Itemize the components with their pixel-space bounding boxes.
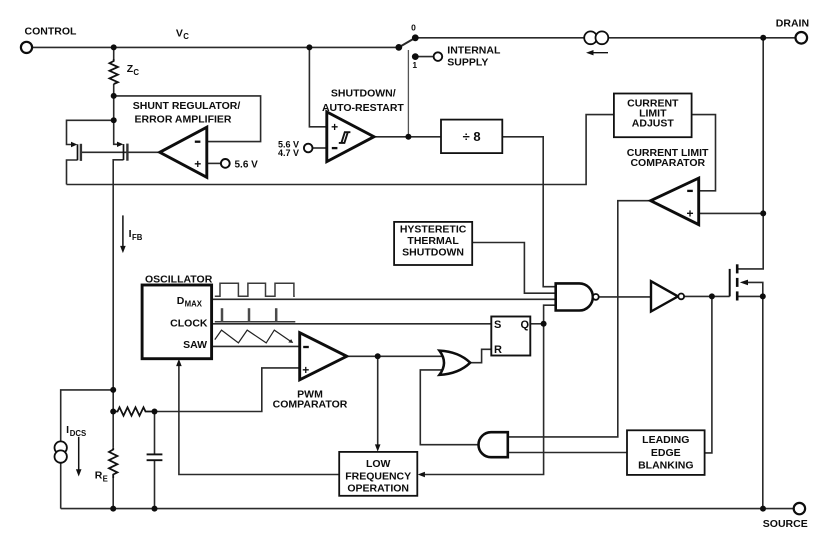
- wire switch control line from auto-restart output: [407, 50, 409, 137]
- current source IDCS: [55, 441, 67, 462]
- svg-text:FB: FB: [132, 233, 143, 242]
- svg-text:HYSTERETIC: HYSTERETIC: [400, 224, 467, 236]
- wire auto-restart output to divide-by-8: [374, 136, 441, 138]
- wire Zc top lead: [113, 47, 115, 59]
- OR gate: [439, 351, 470, 375]
- terminal auto-restart threshold reference: [304, 144, 313, 153]
- terminal 5.6V reference error amp: [221, 159, 230, 168]
- box oscillator: [142, 285, 212, 359]
- wire PWM comparator output to OR gate upper input: [347, 355, 442, 357]
- node dot VC-ZC: [111, 44, 117, 50]
- capacitor C: [147, 454, 163, 460]
- hysteresis symbol inside U2: [339, 132, 351, 143]
- box current limit adjust: [614, 94, 692, 138]
- svg-text:R: R: [494, 344, 502, 356]
- op-amp U3 current limit comparator: [651, 178, 699, 225]
- waveform DMAX square wave: [215, 283, 295, 296]
- arrow IFB annotation: [122, 215, 124, 248]
- wire VC top rail from CONTROL to switch pivot: [32, 46, 399, 48]
- wire center vertical below RE to bottom rail: [112, 478, 114, 509]
- wire capacitor top lead: [154, 412, 156, 454]
- node dot IDCS branch: [110, 387, 116, 393]
- svg-text:+: +: [194, 157, 201, 171]
- node dot current limit plus tap: [760, 210, 766, 216]
- node dot rail source: [760, 506, 766, 512]
- node dot PWM output branch: [375, 353, 381, 359]
- wire Q junction up to NAND input 4: [544, 305, 556, 324]
- op-amp U4 PWM comparator: [300, 333, 347, 380]
- wire auto-restart minus input from reference terminal: [313, 147, 327, 149]
- svg-text:SHUTDOWN/: SHUTDOWN/: [331, 88, 396, 100]
- arrow into low frequency box from Q branch: [418, 472, 425, 478]
- wire IDCS branch from center node: [61, 390, 113, 442]
- NAND gate: [556, 283, 593, 310]
- svg-text:C: C: [183, 32, 189, 41]
- svg-text:SOURCE: SOURCE: [763, 518, 808, 530]
- wire IDCS source bottom lead to rail: [60, 463, 62, 509]
- arrow IDCS annotation: [78, 437, 80, 472]
- svg-text:5.6 V: 5.6 V: [235, 160, 259, 171]
- wire FET1 drain lead from top rail: [67, 120, 114, 144]
- svg-text:AUTO-RESTART: AUTO-RESTART: [322, 102, 404, 114]
- svg-text:SUPPLY: SUPPLY: [447, 56, 488, 68]
- svg-text:0: 0: [411, 22, 416, 32]
- svg-text:SAW: SAW: [183, 339, 207, 351]
- svg-text:E: E: [103, 474, 108, 483]
- svg-text:LOW: LOW: [366, 458, 391, 470]
- svg-text:Q: Q: [521, 319, 530, 331]
- wire error amp feedback loop rectangle: [114, 96, 261, 142]
- current source CS1 top: [584, 31, 608, 44]
- svg-text:BLANKING: BLANKING: [638, 460, 693, 472]
- node dot rail RE: [110, 506, 116, 512]
- resistor horizontal at RC node: [113, 407, 154, 415]
- svg-text:4.7 V: 4.7 V: [278, 148, 299, 158]
- switch contact dot 0: [412, 34, 419, 41]
- transistor Q1 shunt FET left: [78, 144, 81, 161]
- node dot ZC bottom: [111, 93, 117, 99]
- terminal DRAIN: [796, 32, 808, 44]
- box low frequency operation: [339, 452, 417, 496]
- svg-text:DCS: DCS: [70, 429, 86, 438]
- arrow into low frequency box from PWM branch: [375, 444, 381, 451]
- op-amp U2 shutdown auto-restart comparator: [327, 112, 374, 162]
- wire RC node to PWM comparator plus input: [155, 368, 300, 412]
- svg-text:INTERNAL: INTERNAL: [447, 44, 501, 56]
- terminal INTERNAL SUPPLY: [434, 52, 443, 61]
- svg-text:+: +: [302, 363, 309, 377]
- node dot RC left: [110, 409, 116, 415]
- polarity marks PWM comparator U4: [303, 346, 309, 348]
- terminal CONTROL: [21, 42, 32, 53]
- box SR latch: [491, 317, 530, 356]
- svg-text:1: 1: [412, 60, 417, 70]
- wire NAND output to inverter: [599, 296, 651, 298]
- svg-text:+: +: [331, 120, 338, 134]
- wire drain vertical from top rail to MOSFET drain: [738, 38, 763, 269]
- resistor RE: [109, 448, 117, 478]
- svg-text:C: C: [133, 68, 139, 77]
- svg-text:MAX: MAX: [185, 300, 203, 309]
- wire current limit comparator output down to AND gate upper input: [508, 201, 651, 437]
- node dot drain branch top: [760, 35, 766, 41]
- svg-text:CLOCK: CLOCK: [170, 317, 208, 329]
- wire capacitor bottom lead: [154, 461, 156, 509]
- wire gate node down to leading edge blanking input: [705, 296, 712, 453]
- wire FET2 source lead: [113, 160, 123, 185]
- box divide by 8: [441, 120, 502, 154]
- wire divide-by-8 output down to NAND input 1: [502, 137, 555, 287]
- svg-text:OPERATION: OPERATION: [347, 483, 409, 495]
- output MOSFET Q3: [730, 264, 738, 300]
- wire SAW output to PWM comparator minus input: [212, 345, 300, 347]
- wire low frequency operation output to oscillator: [179, 364, 339, 475]
- waveform CLOCK pulses: [222, 308, 276, 321]
- wire inverter output to MOSFET gate: [684, 295, 730, 297]
- switch pivot dot: [395, 44, 402, 51]
- wire Zc bottom lead: [113, 84, 115, 120]
- svg-text:R: R: [95, 469, 103, 481]
- node dot MOSFET source-body: [760, 293, 766, 299]
- wire error amp plus input to 5.6V terminal: [207, 162, 221, 164]
- wire from contact 1 to INTERNAL SUPPLY terminal: [415, 56, 433, 58]
- node dot rail cap: [152, 506, 158, 512]
- wire OR gate output to latch R input: [470, 349, 491, 362]
- wire MOSFET source lead: [738, 295, 763, 297]
- wire Q output to junction: [530, 323, 543, 325]
- node dot FET rail: [111, 117, 117, 123]
- svg-text:CONTROL: CONTROL: [25, 26, 77, 38]
- wire center feedback vertical IFB: [112, 185, 114, 448]
- svg-text:OSCILLATOR: OSCILLATOR: [145, 274, 213, 286]
- node dot auto-restart output: [405, 134, 411, 140]
- wire current limit adjust to comparator minus input: [692, 115, 716, 191]
- arrow current direction CS1: [591, 52, 608, 54]
- wire error amp bottom rail to current limit adjust: [67, 115, 614, 185]
- svg-text:ADJUST: ADJUST: [632, 117, 675, 129]
- svg-text:SHUTDOWN: SHUTDOWN: [402, 247, 464, 259]
- terminal SOURCE: [794, 503, 805, 514]
- box leading edge blanking: [627, 430, 705, 475]
- polarity marks error amp U1: [195, 141, 201, 143]
- svg-text:COMPARATOR: COMPARATOR: [630, 157, 705, 169]
- arrow into oscillator bottom: [176, 359, 182, 366]
- svg-text:ERROR AMPLIFIER: ERROR AMPLIFIER: [134, 114, 231, 126]
- wire switch lever: [399, 38, 416, 48]
- inverter buffer: [651, 281, 678, 311]
- wire auto-restart plus input from VC: [309, 47, 326, 126]
- svg-text:S: S: [494, 319, 501, 331]
- svg-text:COMPARATOR: COMPARATOR: [273, 399, 348, 411]
- inverter bubble: [678, 294, 684, 300]
- switch contact dot 1: [412, 53, 419, 60]
- wire PWM output branch down to low frequency box: [377, 356, 379, 447]
- op-amp U1 shunt regulator error amplifier: [160, 127, 207, 177]
- wire FET2 drain lead: [114, 120, 119, 144]
- node dot gate to LEB: [709, 293, 715, 299]
- svg-text:DRAIN: DRAIN: [776, 18, 809, 30]
- transistor Q2 shunt FET right: [124, 144, 128, 161]
- svg-text:÷ 8: ÷ 8: [463, 129, 481, 144]
- resistor ZC: [110, 59, 118, 84]
- wire current limit comparator plus input from drain sense: [699, 212, 763, 214]
- svg-text:+: +: [686, 207, 693, 221]
- svg-text:LEADING: LEADING: [642, 434, 689, 446]
- wire FET1 source lead to bottom rail: [67, 160, 78, 185]
- node dot RC right: [152, 409, 158, 415]
- svg-text:SHUNT REGULATOR/: SHUNT REGULATOR/: [133, 100, 241, 112]
- AND gate mirrored: [479, 432, 508, 457]
- wire AND gate output up to OR gate lower input: [420, 370, 478, 445]
- svg-text:D: D: [177, 295, 185, 307]
- wire DMAX output to NAND input 3: [212, 298, 556, 300]
- node dot Q output branch: [541, 321, 547, 327]
- wire top-right rail from switch contact 0 to DRAIN: [415, 37, 795, 39]
- wire source vertical down to bottom rail: [762, 296, 764, 508]
- wire MOSFET body line to source: [747, 282, 763, 296]
- wire Q junction down to low frequency operation box: [422, 324, 544, 475]
- svg-text:FREQUENCY: FREQUENCY: [345, 470, 411, 482]
- wire thermal shutdown output to NAND input 2: [472, 243, 556, 294]
- waveform CLOCK baseline: [215, 321, 295, 323]
- svg-text:I: I: [66, 424, 69, 436]
- wire CLOCK output to latch S input: [212, 323, 492, 325]
- waveform SAW sawtooth: [215, 330, 291, 343]
- svg-text:V: V: [176, 28, 183, 40]
- wire leading edge blanking output to AND gate lower input: [508, 452, 627, 454]
- polarity marks current limit comparator U3: [687, 190, 693, 192]
- svg-text:EDGE: EDGE: [651, 447, 681, 459]
- box hysteretic thermal shutdown: [394, 222, 472, 265]
- node dot VC auto-restart tap: [306, 44, 312, 50]
- NAND bubble: [593, 294, 599, 300]
- wire gate line from FET bars to error amp output apex: [82, 151, 160, 153]
- svg-text:THERMAL: THERMAL: [407, 235, 459, 247]
- wire bottom source rail: [61, 508, 794, 510]
